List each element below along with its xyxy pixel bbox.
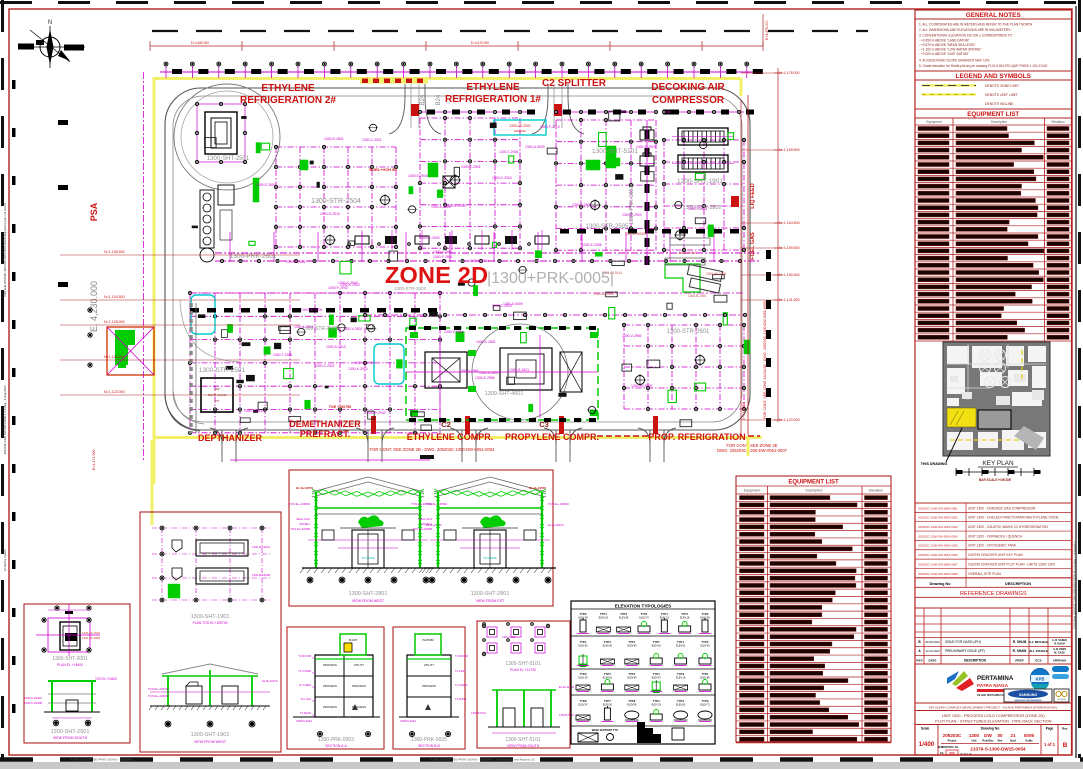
svg-text:1300-P-2940: 1300-P-2940 bbox=[366, 411, 386, 415]
svg-text:06.08.2023: 06.08.2023 bbox=[926, 640, 940, 644]
svg-text:205203C-1300-DW-0054-0003: 205203C-1300-DW-0054-0003 bbox=[918, 525, 958, 529]
svg-text:1300-STR-2601: 1300-STR-2601 bbox=[667, 329, 710, 335]
svg-text:TOE +100750: TOE +100750 bbox=[329, 405, 351, 409]
svg-text:Role/Doc: Role/Doc bbox=[982, 739, 994, 743]
svg-text:B: B bbox=[1063, 742, 1068, 749]
svg-text:Sh. Rev. No: Sh. Rev. No bbox=[960, 754, 972, 756]
svg-text:1300-K-2940: 1300-K-2940 bbox=[420, 236, 440, 240]
svg-text:Project: Project bbox=[948, 739, 957, 743]
right panel border bbox=[915, 10, 1072, 755]
svg-text:1. ALL COORDINATES ARE IN MET: 1. ALL COORDINATES ARE IN METERS AND REF… bbox=[919, 23, 1033, 27]
svg-text:ELEV.89: ELEV.89 bbox=[700, 677, 710, 680]
svg-text:ELEV.81: ELEV.81 bbox=[603, 677, 613, 680]
svg-text:205203C-1300-DW-0054-0002: 205203C-1300-DW-0054-0002 bbox=[918, 516, 958, 520]
svg-text:ELEV.18: ELEV.18 bbox=[676, 677, 686, 680]
svg-text:CAD field 205203C-1300-DW-0251: CAD field 205203C-1300-DW-0251-0006 Rev.… bbox=[3, 203, 7, 297]
column grid C bbox=[555, 120, 557, 250]
svg-text:EL B+19570: EL B+19570 bbox=[296, 486, 313, 490]
svg-text:1300-K-2903: 1300-K-2903 bbox=[492, 176, 512, 180]
svg-text:TYP.5: TYP.5 bbox=[604, 672, 611, 676]
svg-text:TOS EL+105700: TOS EL+105700 bbox=[148, 687, 169, 691]
svg-text:THIS DRAWING: THIS DRAWING bbox=[921, 462, 948, 466]
svg-text:E=4,471.500: E=4,471.500 bbox=[92, 450, 96, 470]
svg-text:DESCRIPTION: DESCRIPTION bbox=[1005, 582, 1031, 586]
svg-text:DECOKING AIR: DECOKING AIR bbox=[651, 82, 725, 93]
left vertical grid line bbox=[143, 72, 145, 460]
detail box 1300-SHT-5101 bbox=[477, 621, 570, 748]
svg-text:1300-SHT-2501: 1300-SHT-2501 bbox=[207, 156, 250, 162]
decoking small pump row bbox=[640, 127, 654, 140]
svg-text:E=4,470.000: E=4,470.000 bbox=[471, 41, 489, 45]
svg-text:1300-B-1901: 1300-B-1901 bbox=[688, 294, 707, 298]
svg-text:ELEV.19: ELEV.19 bbox=[599, 617, 609, 620]
svg-text:1300-P-2903: 1300-P-2903 bbox=[636, 145, 656, 149]
svg-text:1300-P-2910: 1300-P-2910 bbox=[540, 125, 560, 129]
compressor house 1300-SHT-2801 bbox=[406, 328, 598, 420]
svg-text:BASE SUPPORT TYP.: BASE SUPPORT TYP. bbox=[592, 728, 619, 732]
svg-text:TYP.1: TYP.1 bbox=[580, 640, 587, 644]
svg-text:ELEV.56: ELEV.56 bbox=[627, 704, 637, 707]
svg-text:T2 CHEM: T2 CHEM bbox=[299, 683, 312, 687]
svg-text:1300-AV-5009: 1300-AV-5009 bbox=[631, 384, 653, 388]
svg-text:DATE: DATE bbox=[929, 659, 937, 663]
svg-text:N=1,159.500: N=1,159.500 bbox=[779, 246, 800, 250]
svg-text:SEAL GAS: SEAL GAS bbox=[296, 517, 310, 521]
svg-text:DENOTE ZONE LIMIT: DENOTE ZONE LIMIT bbox=[985, 84, 1019, 88]
svg-text:1300-D-2801: 1300-D-2801 bbox=[433, 250, 453, 254]
svg-text:ELEV.63: ELEV.63 bbox=[700, 645, 710, 648]
svg-text:N: N bbox=[48, 20, 52, 26]
svg-text:ETHYLENE COMPR.: ETHYLENE COMPR. bbox=[407, 432, 494, 442]
svg-text:DEPTHANIZER: DEPTHANIZER bbox=[198, 433, 263, 443]
svg-text:Elevation: Elevation bbox=[1051, 120, 1064, 124]
svg-text:ELEV.84: ELEV.84 bbox=[627, 677, 637, 680]
detail box 1300-PRK-0003 section bbox=[287, 627, 384, 749]
svg-text:TOS EL+109500: TOS EL+109500 bbox=[411, 502, 432, 506]
svg-text:1300-T-2801: 1300-T-2801 bbox=[688, 207, 707, 211]
this drawing pointer bbox=[946, 428, 962, 462]
green L bottom-left in red box bbox=[107, 327, 154, 375]
svg-text:ETHYLENE: ETHYLENE bbox=[466, 82, 520, 93]
svg-text:ELEV.33: ELEV.33 bbox=[652, 704, 662, 707]
svg-text:1300-SHT-5101: 1300-SHT-5101 bbox=[505, 737, 541, 743]
svg-text:1300-D-2801: 1300-D-2801 bbox=[479, 371, 499, 375]
svg-text:VENDOR DOC. No: VENDOR DOC. No bbox=[938, 746, 959, 749]
svg-text:1300-B-1901B: 1300-B-1901B bbox=[252, 573, 270, 577]
svg-text:1300-AV-1800: 1300-AV-1800 bbox=[706, 272, 726, 276]
svg-text:DWG. 205203C-1300-DW-0051-0007: DWG. 205203C-1300-DW-0051-0007 bbox=[717, 448, 788, 453]
svg-text:2. ALL DIMENSIONS AND ELEVATI: 2. ALL DIMENSIONS AND ELEVATIONS ARE IN … bbox=[919, 28, 1011, 32]
svg-text:Rev: Rev bbox=[998, 739, 1003, 743]
svg-text:3. CONVENTIONAL ELEVATION 100: 3. CONVENTIONAL ELEVATION 100.000 ± CORR… bbox=[919, 34, 1013, 38]
svg-text:|1300+PRK-0005|: |1300+PRK-0005| bbox=[487, 270, 614, 287]
svg-text:1300-V-2802: 1300-V-2802 bbox=[572, 203, 592, 207]
svg-text:DENOTE INCLINE: DENOTE INCLINE bbox=[985, 102, 1014, 106]
svg-text:1300-B-5101: 1300-B-5101 bbox=[471, 711, 487, 715]
svg-text:KPI OLEFIN COMPLEX DEVELOPMENT: KPI OLEFIN COMPLEX DEVELOPMENT PROJECT -… bbox=[929, 706, 1058, 710]
svg-text:205203C: 205203C bbox=[514, 129, 527, 133]
svg-text:ELEV.74: ELEV.74 bbox=[639, 617, 649, 620]
PSA equipment column bbox=[200, 190, 214, 248]
legend items bbox=[922, 84, 976, 87]
crossed box symbol bbox=[443, 176, 455, 188]
column grid 1300-STR-2803 bbox=[663, 140, 665, 250]
plot road inner outline bbox=[173, 96, 742, 422]
green marks on 2803 grid bbox=[606, 146, 616, 168]
svg-text:T2 ROOM: T2 ROOM bbox=[298, 654, 311, 658]
svg-text:1300-G-2910: 1300-G-2910 bbox=[469, 259, 489, 263]
svg-text:TOS EL+14600: TOS EL+14600 bbox=[95, 677, 117, 681]
svg-text:PLOT PLAN - STRUCTURES ELEVATI: PLOT PLAN - STRUCTURES ELEVATION - PIPE … bbox=[935, 719, 1051, 724]
svg-text:1300-K-2910: 1300-K-2910 bbox=[348, 367, 368, 371]
svg-text:0006: 0006 bbox=[1024, 733, 1035, 738]
svg-text:1300-STR-2502: 1300-STR-2502 bbox=[394, 286, 427, 291]
svg-text:1300-T-2926: 1300-T-2926 bbox=[273, 353, 292, 357]
key plan yellow highlight (this drawing) bbox=[947, 408, 976, 427]
svg-text:REFERENCE DRAWINGS: REFERENCE DRAWINGS bbox=[960, 591, 1027, 597]
svg-text:KEY PLAN: KEY PLAN bbox=[982, 460, 1014, 467]
dash+dot rows at tops of upper grids bbox=[420, 111, 530, 113]
svg-text:PROCESS: PROCESS bbox=[323, 663, 337, 667]
svg-text:1300-V-2956: 1300-V-2956 bbox=[444, 330, 464, 334]
svg-text:1300-V-2802: 1300-V-2802 bbox=[244, 409, 264, 413]
svg-text:1300-K-2940A: 1300-K-2940A bbox=[24, 696, 42, 700]
svg-text:1300-AS-2001: 1300-AS-2001 bbox=[509, 124, 531, 128]
svg-text:1300-C-2521: 1300-C-2521 bbox=[362, 138, 382, 142]
svg-text:M. CASS: M. CASS bbox=[1054, 652, 1065, 655]
svg-text:UNIT 1300 - CAUSTIC WASH/ C2 H: UNIT 1300 - CAUSTIC WASH/ C2 HYDROGENATI… bbox=[968, 525, 1048, 529]
svg-text:TYP.4: TYP.4 bbox=[653, 672, 660, 676]
svg-text:1300-V-2956: 1300-V-2956 bbox=[459, 369, 479, 373]
right dim vertical line bbox=[777, 68, 779, 422]
svg-text:PRELIMINARY ISSUE (IFF): PRELIMINARY ISSUE (IFF) bbox=[945, 649, 985, 653]
svg-text:- +0.670 m ABOVE “MEAN SEA L: - +0.670 m ABOVE “MEAN SEA LEVEL” bbox=[919, 43, 976, 47]
svg-text:N=1,178.000: N=1,178.000 bbox=[779, 71, 800, 75]
top red dimension line bbox=[150, 45, 763, 47]
svg-text:C3: C3 bbox=[539, 420, 549, 429]
left red dim lines bbox=[60, 254, 300, 256]
svg-text:ZONE 2D: ZONE 2D bbox=[385, 262, 488, 288]
svg-text:EQUIPMENT LIST: EQUIPMENT LIST bbox=[788, 480, 839, 486]
svg-text:1300-D-2910: 1300-D-2910 bbox=[326, 345, 346, 349]
svg-text:1300-24110: 1300-24110 bbox=[502, 635, 516, 639]
svg-text:TYP.1: TYP.1 bbox=[702, 672, 709, 676]
key plan scale bar bbox=[956, 468, 1041, 482]
svg-text:R. BASH: R. BASH bbox=[1054, 643, 1064, 646]
key plan yellow dashed roads bbox=[950, 439, 1040, 441]
svg-text:SECTION A-A: SECTION A-A bbox=[325, 744, 347, 748]
svg-text:TYP.9: TYP.9 bbox=[677, 672, 684, 676]
svg-text:B24: B24 bbox=[420, 94, 426, 105]
svg-text:PROCESS: PROCESS bbox=[352, 684, 366, 688]
svg-text:PLAN TOS EL+105700: PLAN TOS EL+105700 bbox=[192, 621, 227, 625]
pertamina logo bbox=[947, 671, 1027, 697]
svg-text:1300-PRK-0005: 1300-PRK-0005 bbox=[411, 737, 447, 743]
svg-text:printed by system: printed by system bbox=[3, 548, 7, 571]
svg-text:TYP.4: TYP.4 bbox=[653, 699, 660, 703]
svg-text:HYUNDAI: HYUNDAI bbox=[1057, 698, 1066, 701]
svg-text:21: 21 bbox=[1010, 733, 1016, 738]
svg-text:TYP.1: TYP.1 bbox=[661, 612, 668, 616]
detail box 1300-SHT-2501 bbox=[24, 604, 130, 743]
svg-text:1300-AK-2940: 1300-AK-2940 bbox=[82, 631, 100, 635]
svg-text:VIEW FROM EST: VIEW FROM EST bbox=[476, 599, 506, 603]
svg-text:1300-E-2956: 1300-E-2956 bbox=[582, 243, 602, 247]
svg-text:UTILITY: UTILITY bbox=[424, 663, 435, 667]
svg-text:Suffix: Suffix bbox=[1025, 739, 1033, 743]
svg-text:Description: Description bbox=[991, 120, 1007, 124]
svg-text:D.J. MICHELE: D.J. MICHELE bbox=[1029, 640, 1049, 644]
svg-text:1300-E-2956: 1300-E-2956 bbox=[475, 376, 495, 380]
svg-text:- +9.950 m ABOVE “LAND DATUM: - +9.950 m ABOVE “LAND DATUM” bbox=[919, 39, 970, 43]
extra clutter: magenta short verticals on rack band bbox=[229, 232, 231, 262]
svg-text:4. ACCESS ROAD SLOPE GRADIENT: 4. ACCESS ROAD SLOPE GRADIENT MAX 10%. bbox=[919, 59, 990, 63]
pipe rack band horizontal bbox=[215, 252, 760, 254]
svg-text:PLAN EL +14600: PLAN EL +14600 bbox=[57, 663, 83, 667]
extra green items bbox=[473, 285, 477, 296]
svg-text:FUEL GAS: FUEL GAS bbox=[750, 232, 756, 260]
svg-text:PLANT: PLANT bbox=[349, 638, 358, 642]
svg-text:ELEV.25: ELEV.25 bbox=[578, 677, 588, 680]
reference drawings table bbox=[915, 503, 1072, 578]
svg-text:EQUIPMENT LIST: EQUIPMENT LIST bbox=[967, 111, 1019, 118]
svg-text:1300-K-1851B: 1300-K-1851B bbox=[625, 232, 646, 236]
svg-text:PROCESS: PROCESS bbox=[323, 705, 337, 709]
svg-text:1300-K-2903: 1300-K-2903 bbox=[340, 283, 360, 287]
svg-text:TYP.1: TYP.1 bbox=[677, 640, 684, 644]
svg-text:1300-K-2910: 1300-K-2910 bbox=[294, 325, 314, 329]
svg-text:1300-T-2926: 1300-T-2926 bbox=[499, 150, 518, 154]
svg-text:TYP.4: TYP.4 bbox=[604, 640, 611, 644]
svg-text:FOR CONT. SEE ZONE 2B - DWG. 2: FOR CONT. SEE ZONE 2B - DWG. 205203C-130… bbox=[370, 447, 496, 452]
svg-text:TOS EL+4000B: TOS EL+4000B bbox=[412, 527, 432, 531]
svg-text:1300-G-2521: 1300-G-2521 bbox=[509, 368, 529, 372]
zone boundary dashed line top bbox=[152, 30, 868, 32]
svg-text:Equipment: Equipment bbox=[744, 489, 760, 493]
svg-text:00: 00 bbox=[997, 733, 1003, 738]
yellow unit limit lines bbox=[155, 77, 741, 80]
svg-text:205203C-1300-DW-0054-0005: 205203C-1300-DW-0054-0005 bbox=[918, 544, 958, 548]
svg-text:TYP.6: TYP.6 bbox=[580, 612, 587, 616]
svg-text:COMPRESSOR: COMPRESSOR bbox=[652, 95, 725, 106]
svg-text:SAMSUNG ENGINEERING: SAMSUNG ENGINEERING bbox=[1014, 699, 1041, 702]
svg-text:Drawing No: Drawing No bbox=[929, 582, 951, 586]
svg-text:BAR SCALE H MODE: BAR SCALE H MODE bbox=[979, 478, 1011, 482]
svg-text:1300-V-2956: 1300-V-2956 bbox=[622, 334, 642, 338]
svg-text:1300-P-2801: 1300-P-2801 bbox=[286, 260, 306, 264]
svg-text:1300-SHT-5101: 1300-SHT-5101 bbox=[505, 661, 541, 667]
svg-text:N=1,120.000: N=1,120.000 bbox=[779, 418, 800, 422]
svg-text:REFRIGERATION 2#: REFRIGERATION 2# bbox=[240, 95, 336, 106]
north arrow compass bbox=[18, 20, 85, 68]
svg-text:DESCRIPTION: DESCRIPTION bbox=[964, 659, 986, 663]
svg-text:T2 LIGH: T2 LIGH bbox=[300, 697, 311, 701]
svg-text:E. 4,230.000: E. 4,230.000 bbox=[89, 281, 99, 332]
svg-text:Drawing No: Drawing No bbox=[981, 727, 1000, 731]
svg-text:ELEV.83: ELEV.83 bbox=[627, 645, 637, 648]
right red dim labels bbox=[741, 72, 778, 74]
svg-text:OLEFIN CRACKER UNIT PLOT PLAN: OLEFIN CRACKER UNIT PLOT PLAN - UNITS 13… bbox=[968, 562, 1055, 566]
extra clutter: small black equipment rects bbox=[280, 327, 291, 334]
detail box 1300-SHT-1901 bbox=[140, 512, 281, 752]
svg-text:ELEV.56: ELEV.56 bbox=[619, 617, 629, 620]
svg-text:TYP.1: TYP.1 bbox=[628, 640, 635, 644]
svg-text:TYP.2: TYP.2 bbox=[620, 612, 627, 616]
samsung logo bbox=[1004, 689, 1052, 702]
svg-text:N=1,164.500: N=1,164.500 bbox=[779, 221, 800, 225]
svg-text:N=1,141.500: N=1,141.500 bbox=[779, 298, 800, 302]
svg-text:1300-SHT-2801: 1300-SHT-2801 bbox=[349, 591, 388, 597]
svg-text:1300-B-1901A: 1300-B-1901A bbox=[252, 545, 270, 549]
road entries bottom bbox=[221, 430, 223, 462]
detail box 1300-SHT-2801 (trusses) bbox=[289, 470, 553, 606]
svg-text:C2 SPLITTER: C2 SPLITTER bbox=[542, 78, 607, 89]
svg-text:ELEV.90: ELEV.90 bbox=[603, 645, 613, 648]
key plan bbox=[943, 342, 1050, 456]
decoking air compressor machines bbox=[678, 128, 728, 145]
svg-text:KPB: KPB bbox=[1036, 677, 1045, 682]
svg-text:PLAN EL +11700: PLAN EL +11700 bbox=[510, 668, 536, 672]
svg-text:OLEFIN CRACKER UNIT KEY PLAN: OLEFIN CRACKER UNIT KEY PLAN bbox=[968, 553, 1023, 557]
svg-text:5. Grade elevation for Shelts: 5. Grade elevation for Shelts plot as pe… bbox=[919, 64, 1047, 68]
svg-text:REV: REV bbox=[916, 659, 922, 663]
svg-text:E+4,472.000: E+4,472.000 bbox=[742, 402, 746, 420]
svg-text:1300-STR-2505: 1300-STR-2505 bbox=[586, 224, 629, 230]
svg-text:205203C-1300-DW-0054-0007: 205203C-1300-DW-0054-0007 bbox=[918, 562, 958, 566]
red entry marker right road bbox=[731, 196, 739, 207]
svg-text:TYP.2: TYP.2 bbox=[628, 672, 635, 676]
vertical red dim line top right bbox=[762, 14, 764, 46]
svg-text:T2 COMM: T2 COMM bbox=[298, 669, 312, 673]
svg-text:VIEW FROM WEST: VIEW FROM WEST bbox=[352, 599, 385, 603]
svg-text:ELEV.82: ELEV.82 bbox=[578, 645, 588, 648]
svg-text:14.10.2022: 14.10.2022 bbox=[926, 649, 940, 653]
svg-text:VIEW FROM WEST: VIEW FROM WEST bbox=[194, 740, 227, 744]
svg-text:N=1,123.000: N=1,123.000 bbox=[104, 390, 125, 394]
svg-text:TYP.2: TYP.2 bbox=[677, 699, 684, 703]
svg-text:TYP.8: TYP.8 bbox=[580, 699, 587, 703]
svg-text:PREP: PREP bbox=[1015, 659, 1023, 663]
svg-text:ELEV.73: ELEV.73 bbox=[700, 704, 710, 707]
svg-text:TYP.1: TYP.1 bbox=[600, 612, 607, 616]
svg-text:N=1,150.500: N=1,150.500 bbox=[779, 273, 800, 277]
svg-text:T2 MAIN: T2 MAIN bbox=[455, 697, 466, 701]
svg-text:GENERAL NOTES: GENERAL NOTES bbox=[966, 12, 1022, 19]
svg-text:1300-SHT-2801: 1300-SHT-2801 bbox=[471, 591, 510, 597]
pill logo right bbox=[1052, 666, 1069, 672]
svg-text:ECS: ECS bbox=[1035, 659, 1041, 663]
svg-text:PROCESS: PROCESS bbox=[422, 684, 436, 688]
svg-text:CAD field 205203C-1300-DW-0251: CAD field 205203C-1300-DW-0251-0006-B-1-… bbox=[1073, 541, 1077, 629]
svg-text:1300-E-2801: 1300-E-2801 bbox=[324, 137, 344, 141]
svg-text:205203C-1300-DW-0054-0001: 205203C-1300-DW-0054-0001 bbox=[918, 506, 958, 510]
revision table bbox=[915, 608, 1072, 664]
small symbols mid plot bbox=[381, 196, 390, 205]
svg-text:TYP.5: TYP.5 bbox=[702, 640, 709, 644]
svg-text:205203C-1300-DW-0054-0006: 205203C-1300-DW-0054-0006 bbox=[918, 553, 958, 557]
svg-text:DENOTE UNIT LIMIT: DENOTE UNIT LIMIT bbox=[985, 93, 1018, 97]
svg-text:UTILITY: UTILITY bbox=[354, 663, 365, 667]
svg-text:ELEV.57: ELEV.57 bbox=[652, 677, 662, 680]
svg-text:UNIT 1300 - FURNACES / QUENCH: UNIT 1300 - FURNACES / QUENCH bbox=[968, 534, 1023, 538]
svg-text:1300-J-5110: 1300-J-5110 bbox=[679, 251, 697, 255]
road arcs bottom-left corner bbox=[165, 395, 200, 431]
svg-text:- +1.162 m ABOVE “LOW WATER: - +1.162 m ABOVE “LOW WATER SPRING” bbox=[919, 48, 981, 52]
svg-text:ELEVATION TYPOLOGIES: ELEVATION TYPOLOGIES bbox=[615, 604, 672, 609]
svg-text:1300-PRK-1851: 1300-PRK-1851 bbox=[629, 185, 635, 224]
svg-text:1300-SHT-2501: 1300-SHT-2501 bbox=[51, 729, 90, 735]
pipe rack band second bbox=[190, 292, 745, 294]
svg-text:T2 MAIN: T2 MAIN bbox=[300, 711, 311, 715]
svg-text:- +0.000 m ABOVE “CMIT DATUM: - +0.000 m ABOVE “CMIT DATUM” bbox=[919, 52, 969, 56]
svg-text:EL B+10070: EL B+10070 bbox=[262, 679, 278, 683]
svg-text:1300: 1300 bbox=[969, 733, 980, 738]
svg-text:1300-C-2521: 1300-C-2521 bbox=[315, 364, 335, 368]
svg-text:TYP.9: TYP.9 bbox=[580, 672, 587, 676]
top row of column dots bbox=[160, 71, 756, 73]
svg-text:1300-C-2903: 1300-C-2903 bbox=[492, 304, 512, 308]
svg-text:T2 CHEM: T2 CHEM bbox=[455, 683, 468, 687]
svg-text:(PANEL): (PANEL) bbox=[421, 522, 432, 526]
svg-text:TOPAS IP EXERCISE PRINT SIGNAL: TOPAS IP EXERCISE PRINT SIGNAL - GENERAL… bbox=[430, 758, 535, 762]
svg-text:1300-A-5009: 1300-A-5009 bbox=[525, 145, 545, 149]
svg-text:PROCESS: PROCESS bbox=[323, 684, 337, 688]
svg-text:Rev.: Rev. bbox=[1062, 727, 1068, 731]
svg-text:EL B+11700: EL B+11700 bbox=[559, 685, 575, 689]
svg-text:LEGEND AND SYMBOLS: LEGEND AND SYMBOLS bbox=[956, 73, 1032, 80]
svg-text:N=1,136.500: N=1,136.500 bbox=[104, 250, 125, 254]
svg-text:1300-STR-2504: 1300-STR-2504 bbox=[311, 198, 361, 205]
column grid 1300-STR-2601 bbox=[623, 325, 625, 409]
svg-text:PROPYLENE COMPR.: PROPYLENE COMPR. bbox=[505, 432, 599, 442]
DW rear valve pit box bbox=[201, 378, 233, 412]
svg-text:TYP.1: TYP.1 bbox=[641, 612, 648, 616]
right equipment list bbox=[915, 108, 1072, 110]
svg-text:GRND LEVEL: GRND LEVEL bbox=[296, 719, 313, 723]
svg-text:REFRIGERATION 1#: REFRIGERATION 1# bbox=[445, 94, 541, 105]
svg-text:1300-SHT-2001: 1300-SHT-2001 bbox=[52, 656, 88, 662]
svg-text:1300-K-2940B: 1300-K-2940B bbox=[24, 701, 42, 705]
tower 1300-SHT-2501 plan bbox=[205, 112, 237, 154]
svg-text:APPR/AVH: APPR/AVH bbox=[1053, 659, 1066, 663]
yellow line right short bbox=[747, 437, 750, 456]
svg-text:1300-STR-2501: 1300-STR-2501 bbox=[199, 367, 246, 374]
scattered green equipment bbox=[253, 178, 259, 202]
svg-text:(PANEL): (PANEL) bbox=[299, 522, 310, 526]
svg-text:DEMETHANIZER: DEMETHANIZER bbox=[289, 419, 361, 429]
svg-text:1300-SHT-1901: 1300-SHT-1901 bbox=[191, 614, 230, 620]
svg-text:ELEV.97: ELEV.97 bbox=[578, 704, 588, 707]
svg-text:1 of 1: 1 of 1 bbox=[1044, 742, 1056, 747]
svg-text:TOS EL+102600: TOS EL+102600 bbox=[148, 694, 169, 698]
svg-text:Elevation: Elevation bbox=[869, 489, 883, 493]
svg-text:205203C-1300-DW-0251-0006-1-1-: 205203C-1300-DW-0251-0006-1-1-0.dwg - 4-… bbox=[3, 385, 7, 454]
svg-text:205203C-1300-DW-0054-0004: 205203C-1300-DW-0054-0004 bbox=[918, 534, 958, 538]
svg-text:R. SHAW: R. SHAW bbox=[1013, 649, 1027, 653]
svg-text:PLATFRM: PLATFRM bbox=[423, 639, 434, 642]
svg-text:UNIT 1300 - CHILLED/ FRACTIONA: UNIT 1300 - CHILLED/ FRACTIONATION/ETHYL… bbox=[968, 516, 1060, 520]
svg-text:1300-SHT-4601: 1300-SHT-4601 bbox=[485, 391, 524, 397]
svg-text:N=1,134.500: N=1,134.500 bbox=[104, 295, 125, 299]
column grid center B bbox=[419, 118, 421, 248]
svg-text:TOS EL+4000B: TOS EL+4000B bbox=[290, 527, 310, 531]
svg-text:N=1,126.000: N=1,126.000 bbox=[104, 355, 125, 359]
svg-text:1300-E-2801: 1300-E-2801 bbox=[256, 183, 276, 187]
svg-text:ELEV.16: ELEV.16 bbox=[652, 645, 662, 648]
black dash block rows bbox=[190, 308, 199, 313]
svg-text:1300-V-2802: 1300-V-2802 bbox=[343, 327, 363, 331]
svg-text:GRND LEVEL: GRND LEVEL bbox=[400, 719, 417, 723]
